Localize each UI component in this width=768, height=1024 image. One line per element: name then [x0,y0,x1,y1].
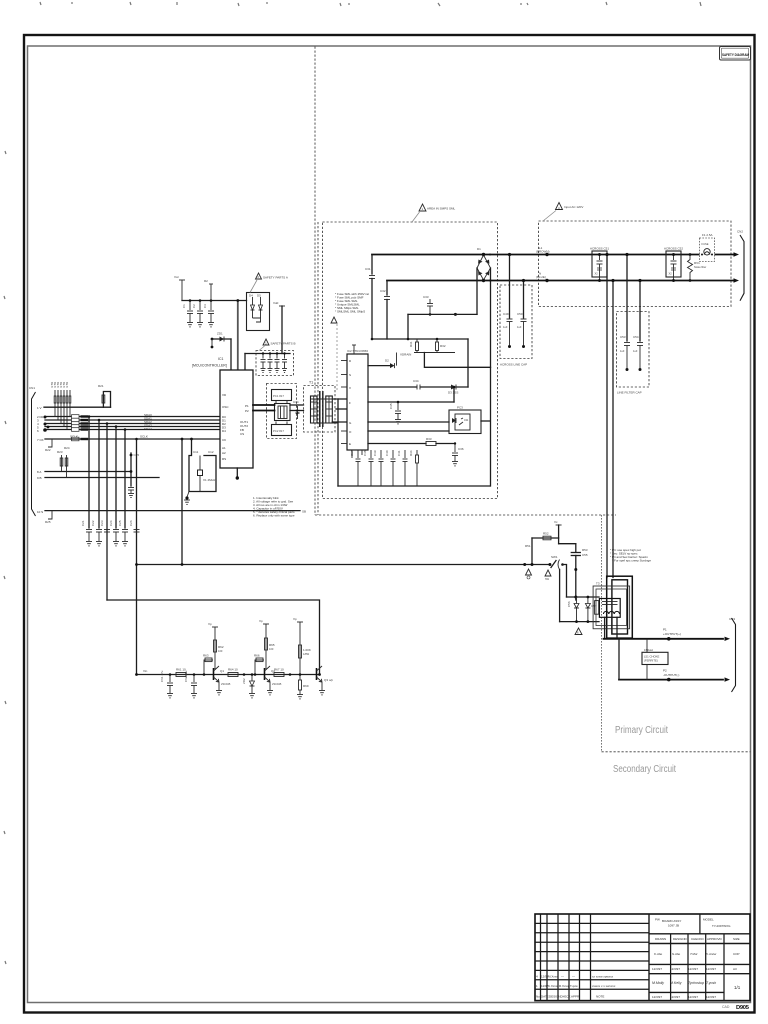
ground C36 [452,462,458,466]
wire T1 secondary to IC2 [332,399,347,422]
transistor Q2 [265,666,282,690]
capacitor C33 bulk [423,295,457,316]
svg-text:—: — [572,975,575,979]
ground under C15 [128,494,134,498]
pulse xfmr lower box PC2 [272,422,292,436]
ground C61 [167,694,173,698]
resistor R63 base loop [203,654,213,676]
wire bus drop 6 (continues to output filter row) [136,439,138,675]
diode zener ZD1 [211,332,231,371]
svg-text:CAD: CAD [722,1005,730,1009]
wire opto to right rail [481,420,490,422]
wire cap rail [245,353,290,355]
wire driver to T1 [290,405,304,411]
svg-text:Tychostup: Tychostup [688,981,704,985]
wire IC2 drain link [368,353,397,369]
svg-text:D905: D905 [736,1005,750,1011]
svg-text:C39: C39 [373,450,377,456]
connector CN3 (left edge) [29,386,36,516]
resistor R21 vcc feed [98,384,111,407]
svg-text:C3: C3 [203,304,207,308]
connector CN2 [725,617,736,692]
svg-text:SCLK: SCLK [140,435,148,439]
svg-text:xx xxxw xpwxxx: xx xxxw xpwxxx [592,975,614,979]
svg-text:C31: C31 [365,267,371,271]
capacitor C22 [91,520,102,541]
svg-text:1uF: 1uF [503,325,508,329]
net label line N [536,272,549,283]
svg-text:A3: A3 [733,967,737,971]
wire rectified plus rail [372,254,490,256]
transformer T1 primary winding [311,396,318,423]
svg-text:C24: C24 [109,520,113,526]
svg-text:R32: R32 [440,344,446,348]
svg-text:M.Molly: M.Molly [652,981,664,985]
dashed box line caps left [500,285,532,359]
warn triangle damper [575,628,582,635]
node IC1 bottom pin [236,468,239,480]
svg-text:C14: C14 [293,400,299,404]
capacitor C62 [184,670,197,693]
node output junctions [667,637,671,681]
capacitor C25 [118,520,128,541]
svg-text:R25: R25 [45,520,51,524]
diode D3 on fb rail [448,385,458,395]
IC2 smps regulator [347,349,368,450]
svg-text:OSC: OSC [222,405,229,409]
wire bulk rail [408,313,477,315]
svg-text:E: E [349,442,351,446]
svg-text:P1: P1 [245,404,249,408]
svg-text:C41: C41 [397,450,401,456]
svg-text:R34: R34 [409,450,413,456]
capacitor C21 [81,520,92,541]
wire bus line D3 [45,426,220,428]
capacitor C40 bottom row [385,450,396,486]
capacitor C15 with node [128,453,139,493]
resistor R24 [64,446,70,478]
wire bus drop 4 [115,427,117,529]
wire IC2 feedback rail [368,386,468,388]
svg-text:A1: A1 [222,446,226,450]
warn triangle note AC [543,203,583,222]
transistor Q3 [317,666,334,690]
svg-text:C38: C38 [363,450,367,456]
svg-text:6. Replace only with same type: 6. Replace only with same type [253,514,295,518]
wire secondary out bottom [619,679,723,681]
svg-text:PC1 817: PC1 817 [273,394,284,398]
svg-text:T.Mot: T.Mot [690,952,698,956]
capacitor C39 bottom row [373,450,384,486]
svg-text:C55: C55 [582,553,588,557]
node feeder joins [135,438,183,566]
wire damper bottom rail [560,621,599,623]
wire bus line D0 [45,416,220,418]
capacitor C50 [517,279,527,348]
svg-text:PC2 817: PC2 817 [273,429,284,433]
svg-text:COP: COP [733,952,740,956]
wire AC line L [490,254,734,256]
svg-text:C61 47u: C61 47u [160,670,164,682]
svg-text:Q3 o/p: Q3 o/p [324,678,333,682]
svg-text:D3 1SS: D3 1SS [448,391,458,395]
resistor R52 on loop top [532,532,559,540]
ground C8 [282,369,287,373]
svg-text:R.Xxxq: R.Xxxq [559,984,569,988]
fuse F1 [700,233,715,262]
svg-text:100: 100 [269,647,274,651]
svg-text:SAFETY PARTS A: SAFETY PARTS A [263,276,288,280]
svg-text:C23: C23 [100,520,104,526]
svg-text:CHECK: CHECK [560,995,571,999]
capacitor C1 [182,299,193,322]
notes block smps left [335,292,369,314]
svg-text:C56: C56 [567,601,571,607]
svg-text:(BLUE): (BLUE) [536,275,546,279]
wire secondary return leg [618,639,620,680]
svg-text:1097 JB: 1097 JB [668,924,679,928]
dashed box line caps [617,312,650,388]
transformer T1 dashed box [304,386,336,433]
svg-text:ACROSS LINE CAP: ACROSS LINE CAP [500,363,527,367]
capacitor C14 [293,400,300,419]
svg-text:APPR: APPR [571,995,580,999]
notes block under IC1 [253,496,295,518]
ground C7 [275,369,280,373]
dashed safety box CY caps [256,351,294,376]
wire switch drop b [559,570,561,622]
svg-text:R62: R62 [218,645,224,649]
capacitor C34 on fb rail [413,379,420,390]
transistor Q1 [214,666,231,690]
wire stub hook R25 [45,511,52,524]
switch SW1 [548,555,563,570]
capacitor C31 on plus rail [365,255,375,339]
svg-text:R31: R31 [409,341,413,347]
svg-text:C34: C34 [413,379,419,383]
svg-text:IC2 STR-F6656: IC2 STR-F6656 [347,349,368,353]
svg-text:RS: RS [222,457,226,461]
svg-text:C12: C12 [208,450,214,454]
ground C25 [122,542,128,546]
wire smps left rail [337,399,339,486]
warn triangle note 2 [250,273,288,293]
IC1 label [192,357,227,368]
svg-text:R63: R63 [203,654,209,658]
svg-text:R23: R23 [57,450,63,454]
wire IC2 gnd stubs [352,450,362,458]
wire IC2 opto in [368,421,449,423]
svg-text:CK: CK [222,438,226,442]
svg-text:xxwxx x x xwxxxx: xxwxx x x xwxxxx [592,984,616,988]
resistor R64 on row [228,668,245,677]
varistor RV1 [688,253,707,282]
svg-text:R53: R53 [582,548,588,552]
svg-text:S: S [349,373,351,377]
wire T3 legs [605,617,617,638]
svg-text:PW: PW [655,918,660,922]
resistor R65 collector [265,638,275,651]
svg-text:1 V: 1 V [37,406,42,410]
wire clock line [45,438,220,440]
wire drain riser [467,339,469,387]
driver core box T2 [275,404,291,421]
svg-text:NOTE: NOTE [596,995,604,999]
ground Q1 [216,691,222,695]
capacitor CX2 across line [664,247,683,283]
transformer T3 winding core [595,599,621,618]
resistor R23 [57,450,63,472]
capacitor C41 bottom row [397,450,408,486]
svg-text:C2: C2 [192,304,196,308]
transformer T3 outer shield box [607,576,633,638]
capacitor C23 [100,520,110,532]
svg-text:Vp: Vp [259,619,263,623]
wire sense line B [45,477,159,479]
svg-text:SAFETY DIAGRAM: SAFETY DIAGRAM [722,52,749,57]
power flag above IC2 [352,345,356,354]
wire switch drop a [563,565,567,598]
resistor R2 vcc stub [204,279,213,301]
svg-text:ZD2: ZD2 [242,678,246,684]
connector CN1 [734,230,745,301]
svg-text:8 A: 8 A [37,470,41,474]
svg-text:M.Xxxw: M.Xxxw [548,975,559,979]
wire low rail jog [107,600,320,675]
warn triangle note 3 [259,339,296,351]
wire feeder drop from clock rail [181,439,183,565]
capacitor C26 [129,520,140,532]
capacitor C32 on minus rail [380,281,390,339]
svg-text:ZD1: ZD1 [217,332,223,336]
net label out minus [663,669,679,678]
capacitor C55 series [571,544,588,600]
svg-text:APPROVD: APPROVD [707,937,723,941]
capacitor C2 [192,299,203,322]
svg-text:12/3/97: 12/3/97 [652,995,662,999]
safety diagram stamp box [720,47,751,61]
ground C2 [197,323,203,327]
svg-text:7 CK: 7 CK [37,438,44,442]
svg-text:Vdd: Vdd [273,301,279,305]
resistor R51 [523,538,533,566]
capacitor C53 [620,335,630,371]
power flag Q2 rail [259,619,269,669]
capacitor C3 [203,299,214,322]
svg-text:D1: D1 [477,247,481,251]
svg-text:D4: D4 [249,294,253,298]
svg-text:CS: CS [240,432,244,436]
wire AC drop 1 [605,253,608,578]
svg-text:Vc: Vc [554,520,558,524]
regulator box U3 [247,293,270,331]
svg-text:SCLK: SCLK [70,435,78,439]
ground Q2 [267,691,273,695]
svg-text:K.Xxxw: K.Xxxw [548,984,559,988]
ferrite beads FB1 on bus [72,415,89,441]
resistor R68 [299,645,311,658]
warn triangle smps note leader [331,317,337,390]
svg-text:AREA IN SMPS SML: AREA IN SMPS SML [427,207,456,211]
wire sense line A [45,471,131,473]
warn triangle sw b [545,570,551,581]
resistor R31 snubber [409,339,419,353]
opto coupler box PC3 [449,406,481,434]
warn triangle note 1 smps [412,204,456,222]
net labels on bus [144,413,152,431]
svg-text:V: V [349,386,351,390]
svg-text:R51: R51 [525,544,531,548]
title block [535,914,750,1001]
wire standby feed [137,564,551,566]
svg-text:M.Kelly: M.Kelly [670,981,682,985]
svg-text:C35: C35 [389,403,393,409]
wire loop jog [559,543,576,545]
svg-text:X2: X2 [595,272,599,276]
ground C22 [96,542,102,546]
capacitor C36 sense [452,442,464,461]
diode zener ZD2 [242,673,255,693]
svg-text:DESIGN: DESIGN [549,995,561,999]
svg-text:12/3/97: 12/3/97 [706,967,716,971]
svg-text:12/3/97: 12/3/97 [688,967,698,971]
bridge rectifier D1 [477,247,491,282]
ground C1 [187,323,193,327]
svg-text:Q1: Q1 [220,669,224,673]
ground C3 [208,323,214,327]
svg-text:Vp: Vp [208,622,212,626]
svg-text:1/8W: 1/8W [303,652,310,656]
notes block transformer [610,548,651,563]
resistor R67 on row [274,668,291,677]
svg-text:Secondary Circuit: Secondary Circuit [613,764,676,775]
diode zener D52 [567,597,579,623]
svg-text:ACROSS C52: ACROSS C52 [664,247,683,251]
svg-text:2SC945: 2SC945 [272,682,282,686]
capacitor CX1 across line [590,247,609,283]
net label line L [536,246,550,256]
svg-text:F: F [349,401,351,405]
svg-text:C40: C40 [385,450,389,456]
svg-text:C36: C36 [458,447,464,451]
wire bus drop 1 [88,417,90,529]
wire IC2 pin stubs left [341,361,347,444]
svg-text:K.Anzw: K.Anzw [706,952,717,956]
wire bus drop 3 (continues to low rail) [106,424,108,601]
wire bus line D1 [45,419,220,421]
svg-text:10 S: 10 S [37,510,43,514]
svg-text:* For spef spc creep Surdnge: * For spef spc creep Surdnge [612,559,651,563]
svg-text:12/3/97: 12/3/97 [652,967,662,971]
wire bus drop 5 [124,430,126,529]
ground C24 [113,542,119,546]
wire risers above IC1 [238,301,245,371]
resistor R61 on row [176,668,186,677]
svg-text:12/3/97: 12/3/97 [670,967,680,971]
svg-text:Noise filter: Noise filter [694,265,706,269]
wire smps ground rail [338,485,490,487]
svg-text:12/3/97: 12/3/97 [688,995,698,999]
svg-text:A2: A2 [222,451,226,455]
svg-text:1uF: 1uF [517,325,522,329]
svg-text:MODEL: MODEL [703,918,714,922]
transformer T3 bobbin inner [596,589,627,626]
ground C5 [261,369,266,373]
svg-text:(FERRITE): (FERRITE) [644,659,658,663]
svg-text:Vcc: Vcc [174,275,180,279]
svg-text:C32: C32 [380,289,386,293]
svg-text:R21: R21 [98,384,104,388]
wire bridge left leg [476,268,478,314]
svg-text:Vp: Vp [293,617,297,621]
resistor R34 bottom row [409,450,419,486]
capacitor C24 [109,520,119,541]
svg-text:P2: P2 [663,669,667,673]
svg-text:SW: SW [545,578,550,581]
loop circuit resonator X1 [185,438,216,500]
ground loop [184,500,190,504]
op-amp IC1 main body [220,370,253,468]
dashed box AC input [539,221,732,307]
capacitor C35 to gnd [389,401,401,419]
svg-text:12/3/97: 12/3/97 [670,995,680,999]
svg-text:-OUTPUT(-): -OUTPUT(-) [663,673,679,677]
wire bus line D2 [45,423,220,425]
transformer T1 secondary winding [326,396,333,423]
svg-text:IC1: IC1 [218,357,224,361]
primary/secondary boundary dashed divider [315,47,751,752]
diode zener D53 [585,596,596,623]
capacitor C6 [268,352,273,368]
wire drain riser link [424,353,490,368]
capacitor C49 [503,253,513,348]
capacitor C5 [261,352,266,368]
svg-text:D4: D4 [222,429,226,433]
svg-text:BOARD ASSY: BOARD ASSY [662,919,681,923]
wire snubber rail [372,338,468,340]
wire AC drop 2 [611,279,614,578]
svg-text:1uF: 1uF [620,349,625,353]
net label out plus [663,628,681,637]
power flag Q1 rail [208,622,218,669]
svg-text:C33: C33 [423,295,429,299]
svg-text:R67 10: R67 10 [274,668,284,672]
svg-text:C26: C26 [129,520,133,526]
resistor R66 base loop [254,654,264,676]
node C55 lands [574,596,577,599]
wire secondary out top [604,638,724,640]
svg-text:K.Abe: K.Abe [654,952,663,956]
inductor label box L51 [642,639,668,680]
pin labels CN3 [37,406,44,514]
power flag R68 rail [293,617,303,675]
svg-text:2SC945: 2SC945 [221,682,231,686]
svg-text:R64 10: R64 10 [228,668,238,672]
svg-text:SB: SB [302,510,306,514]
wire IC2 opto return [368,430,449,432]
svg-text:R33: R33 [426,437,432,441]
capacitor C61 [160,670,173,693]
svg-text:100: 100 [218,649,223,653]
wire snubber bottom [414,352,455,354]
warn triangle sw a [526,569,532,579]
resistor R69 below row [299,673,309,694]
pin labels inside IC1 [222,393,249,461]
wire IC2 vcc rail [368,401,454,403]
wire stub hook R22 [45,439,52,452]
svg-text:S.Abe: S.Abe [672,952,681,956]
svg-text:1.00K: 1.00K [303,648,311,652]
